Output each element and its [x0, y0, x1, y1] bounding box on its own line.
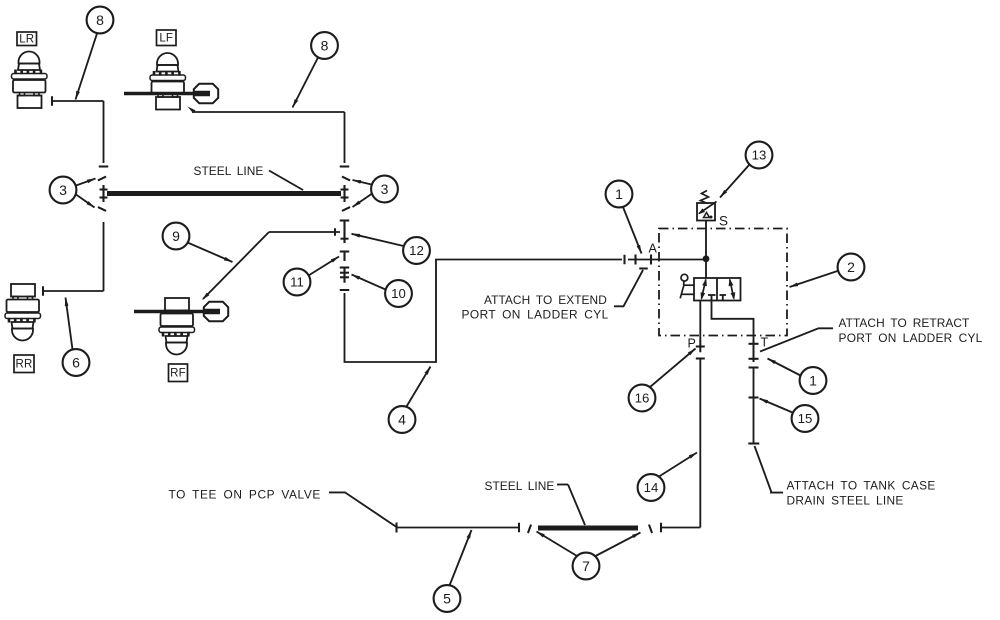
steel line label leader: [269, 171, 303, 191]
A line into manifold: [656, 259, 704, 261]
hose end at LR: [51, 96, 53, 106]
svg-text:2: 2: [847, 259, 855, 275]
hose end slant right: [649, 525, 652, 533]
callout 8 (right): [293, 32, 338, 107]
label LR: [17, 32, 37, 46]
callout 6: [63, 298, 90, 376]
hose end slant left: [528, 525, 531, 533]
hose left vertical upper: [103, 101, 105, 163]
port label P: [688, 337, 696, 351]
outrigger swivel LR: [12, 52, 48, 109]
callout 5: [434, 530, 472, 612]
P hose bottom horizontal: [661, 527, 700, 529]
hex fitting at LF: [194, 84, 218, 103]
steel line through RF: [134, 310, 206, 314]
P hose cap: [696, 357, 705, 359]
P port fitting: [696, 340, 705, 353]
manifold block (item 2): [659, 229, 787, 336]
svg-text:13: 13: [752, 148, 767, 163]
steel line bottom leader: [568, 485, 585, 526]
hose LR horizontal: [52, 100, 104, 102]
callout 11: [284, 257, 339, 296]
hose from RF horizontal: [269, 228, 340, 236]
svg-text:DRAIN STEEL LINE: DRAIN STEEL LINE: [787, 494, 904, 508]
callout 3 (left): [50, 177, 96, 208]
retract leader: [760, 328, 833, 351]
outrigger swivel RF: [159, 298, 195, 355]
svg-text:15: 15: [798, 411, 813, 426]
svg-text:1: 1: [615, 186, 623, 202]
T drain hose: [749, 368, 759, 444]
steel line label (top): [194, 164, 264, 178]
tank drain path: [712, 295, 754, 340]
steel line label (bottom): [485, 479, 569, 493]
callout 16: [629, 349, 696, 412]
elbow fitting (item 11): [340, 252, 350, 262]
steel line bottom (thick): [538, 526, 638, 531]
A port fitting: [628, 255, 656, 269]
svg-text:ATTACH TO EXTEND: ATTACH TO EXTEND: [484, 293, 607, 307]
svg-text:RR: RR: [15, 358, 32, 370]
svg-text:LF: LF: [159, 32, 173, 44]
callout 4: [389, 367, 431, 433]
S line: [705, 221, 707, 257]
svg-text:RF: RF: [170, 367, 186, 379]
right steel-line tee fittings: [340, 167, 350, 211]
fitting (item 10): [340, 267, 350, 283]
steel line through LF: [124, 92, 196, 96]
port label A: [649, 242, 658, 256]
hose RR horizontal: [43, 290, 104, 292]
text TO TEE ON PCP VALVE: [169, 488, 321, 502]
callout 10: [352, 275, 412, 307]
svg-text:PORT ON LADDER CYL: PORT ON LADDER CYL: [839, 331, 983, 345]
relief valve at S port (item 13): [697, 191, 717, 221]
P hose down: [699, 359, 701, 528]
svg-text:14: 14: [644, 480, 659, 495]
hose LF horizontal with arrow: [188, 107, 345, 114]
svg-text:ATTACH TO RETRACT: ATTACH TO RETRACT: [839, 316, 970, 330]
label RF: [169, 364, 188, 382]
svg-text:ATTACH TO TANK CASE: ATTACH TO TANK CASE: [787, 479, 936, 493]
svg-text:TO TEE ON PCP VALVE: TO TEE ON PCP VALVE: [169, 488, 321, 502]
callout 13: [720, 142, 772, 198]
callout 7: [537, 532, 641, 580]
label LF: [157, 30, 177, 46]
svg-text:A: A: [649, 242, 658, 256]
manual lever: [680, 274, 694, 298]
svg-text:8: 8: [321, 38, 329, 54]
svg-text:T: T: [761, 336, 769, 350]
outrigger swivel RR: [5, 284, 41, 341]
callout 12: [352, 234, 430, 264]
callout 1 (right): [768, 359, 827, 394]
hose end tick left: [395, 523, 397, 533]
junction node: [703, 255, 710, 262]
callout 14: [638, 453, 697, 501]
left steel-line tee fittings: [98, 167, 108, 211]
svg-text:10: 10: [391, 286, 406, 301]
hex fitting at RF: [204, 302, 228, 321]
T hose cap: [749, 366, 759, 368]
svg-text:STEEL LINE: STEEL LINE: [194, 164, 264, 178]
svg-text:8: 8: [96, 12, 104, 28]
svg-text:6: 6: [72, 355, 80, 371]
T drain end cap: [748, 442, 759, 444]
text ATTACH TO TANK CASE: [787, 479, 936, 508]
tank drain leader: [755, 446, 784, 493]
pcp leader: [329, 492, 397, 527]
port label T: [761, 336, 769, 350]
T port fitting: [749, 340, 759, 362]
callout 2: [790, 254, 865, 287]
svg-text:LR: LR: [19, 33, 34, 45]
P feed line: [699, 301, 701, 341]
hose right vertical upper: [344, 112, 346, 163]
extend leader: [614, 270, 643, 306]
port label S: [719, 214, 728, 229]
svg-text:12: 12: [409, 243, 424, 258]
svg-text:3: 3: [59, 182, 67, 198]
bottom hose left: [397, 527, 520, 529]
lever valve (2-way): [694, 278, 741, 301]
hose from RF diagonal: [202, 232, 269, 300]
svg-text:7: 7: [582, 558, 590, 574]
callout 9: [163, 223, 233, 262]
hose left vertical lower: [103, 222, 105, 291]
svg-text:5: 5: [443, 591, 451, 607]
text ATTACH TO EXTEND: [462, 293, 609, 322]
svg-text:9: 9: [172, 228, 180, 244]
callout 1 (top): [606, 181, 642, 254]
label RR: [14, 355, 34, 373]
hose end cap below fittings: [340, 289, 350, 291]
hose end at RR: [42, 286, 44, 296]
hose end tick left2: [518, 523, 520, 533]
svg-text:S: S: [719, 214, 728, 229]
outrigger swivel LF: [150, 53, 186, 110]
svg-text:16: 16: [635, 391, 650, 406]
junction fitting (item 12): [340, 221, 350, 244]
svg-text:11: 11: [290, 275, 304, 290]
steel line (thick): [107, 191, 341, 196]
text ATTACH TO RETRACT: [839, 316, 983, 345]
svg-text:1: 1: [809, 373, 817, 389]
callout 8 (left): [76, 7, 114, 100]
svg-text:4: 4: [398, 412, 406, 428]
valve feed line: [705, 259, 707, 278]
hose end tick right: [660, 523, 662, 533]
callout 3 (right): [353, 176, 398, 207]
svg-text:STEEL LINE: STEEL LINE: [485, 479, 555, 493]
callout 15: [760, 399, 819, 432]
hose end tick at A: [623, 255, 625, 265]
svg-text:PORT ON LADDER CYL: PORT ON LADDER CYL: [462, 308, 609, 322]
svg-text:3: 3: [381, 181, 389, 197]
hose lower run to valve: [345, 260, 623, 363]
